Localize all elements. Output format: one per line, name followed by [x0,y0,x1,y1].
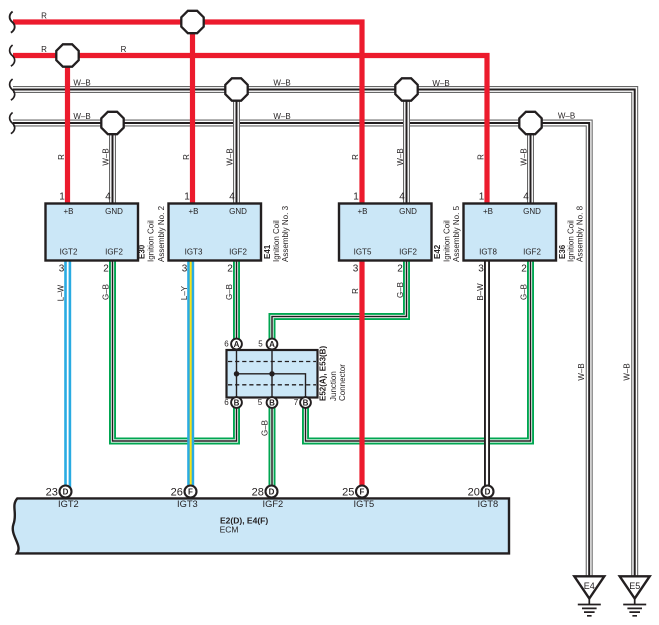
wire R bus row2: left edge right then down to coil4 +B [13,56,487,205]
svg-text:1: 1 [353,192,359,203]
wire G-B: junction B7 down, right, up to coil4 IGF2 [306,260,531,441]
svg-text:Ignition Coil: Ignition Coil [567,220,576,262]
junction internal wire A6-B6 [236,350,238,398]
svg-text:W–B: W–B [225,148,234,165]
junction dashed partition lower [228,384,316,386]
svg-text:Ignition Coil: Ignition Coil [272,220,281,262]
coil E30 side label [138,205,166,262]
svg-text:2: 2 [103,264,109,275]
svg-text:D: D [63,487,69,496]
coil E36 pin numbers [478,192,529,275]
wire L-W: coil1 IGT2 down to ECM pin 23 [64,260,71,492]
svg-text:A: A [269,340,275,349]
svg-text:R: R [41,11,47,20]
ECM name label [220,515,269,534]
svg-text:GND: GND [399,207,417,216]
svg-text:IGT8: IGT8 [478,499,499,509]
svg-text:4: 4 [399,192,405,203]
svg-text:1: 1 [59,192,65,203]
wire L-Y: coil2 IGT3 down to ECM pin 26 [187,260,194,492]
svg-text:E5: E5 [629,581,640,591]
wire W-B bus row4: left edge to right side, down to ground E4 [13,123,589,577]
break symbol row1 [10,12,15,33]
svg-text:G–B: G–B [225,284,234,300]
ignition coil E42 box (No. 5) [339,204,432,261]
svg-text:G–B: G–B [102,284,111,300]
coil E41 side label [263,205,290,262]
ignition coil E36 box (No. 8) [464,204,557,261]
svg-text:Connector: Connector [338,364,347,401]
svg-text:B–W: B–W [476,283,485,301]
svg-text:+B: +B [357,207,367,216]
wire W-B bus row3: left edge to right side, down to ground E5 [13,90,635,578]
svg-text:IGF2: IGF2 [263,499,284,509]
coil E42 pin numbers [353,192,406,275]
svg-text:IGT2: IGT2 [60,247,78,256]
ECM box with torn left edge [13,498,509,553]
svg-text:IGF2: IGF2 [105,247,123,256]
svg-text:25: 25 [342,487,354,499]
ECM pin 28 D IGF2 [252,486,284,510]
svg-text:F: F [188,487,193,496]
node octagon: row3 junction at x236.5 [225,78,247,100]
svg-text:IGF2: IGF2 [229,247,247,256]
wire R bus row1: left edge right then down to coil3 +B [13,22,362,204]
svg-text:IGF2: IGF2 [399,247,417,256]
wire G-B: coil3 IGF2 down, left, down to junction A5 [272,260,407,341]
svg-text:R: R [182,154,191,160]
ECM pin 26 F IGT3 [171,486,198,510]
wire W-B drop: row4 octagon to coil4 GND [527,123,534,204]
ECM pin 23 D IGT2 [46,486,79,510]
svg-text:E42: E42 [433,244,442,259]
junction dashed partition upper [228,361,316,363]
svg-text:IGT3: IGT3 [177,499,198,509]
ground E4 [574,576,604,616]
wire R drop: row2 octagon to coil1 +B [65,56,70,205]
svg-text:L–Y: L–Y [180,285,189,300]
svg-text:Assembly No. 2: Assembly No. 2 [157,205,166,262]
svg-text:W–B: W–B [558,111,575,120]
coil E41 pin numbers [182,192,236,275]
svg-text:IGT5: IGT5 [354,247,372,256]
wire R drop: row1 octagon to coil2 +B [190,22,195,204]
svg-text:1: 1 [184,192,190,203]
svg-text:W–B: W–B [101,148,110,165]
svg-text:W–B: W–B [577,363,586,380]
junction pin B7 [294,397,311,408]
junction internal bus to B7 [237,374,306,398]
svg-text:23: 23 [46,487,58,499]
svg-text:1: 1 [479,192,485,203]
svg-text:R: R [41,45,47,54]
svg-text:20: 20 [468,487,480,499]
wire R: coil3 IGT5 down to ECM pin 25 [359,260,364,492]
svg-text:3: 3 [353,264,359,275]
svg-text:W–B: W–B [623,363,632,380]
svg-text:5: 5 [258,398,263,407]
node octagon: row1 junction at x192.5 [181,11,203,33]
svg-text:4: 4 [105,192,111,203]
svg-text:+B: +B [483,207,493,216]
svg-text:3: 3 [182,264,188,275]
break symbol row3 [10,79,15,100]
svg-text:B: B [303,398,309,407]
coil E42 side label [433,205,461,262]
ignition coil E30 box (No. 2) [46,204,139,261]
wire G-B: junction B5 down to ECM IGF2 pin 28 [269,404,276,492]
svg-text:26: 26 [171,487,183,499]
svg-text:28: 28 [252,487,264,499]
node octagon: row4 junction at x112.5 [101,112,123,134]
svg-text:GND: GND [105,207,123,216]
svg-text:B: B [234,398,240,407]
svg-text:4: 4 [229,192,235,203]
ignition coil E41 box (No. 3) [169,204,262,261]
svg-text:E30: E30 [138,244,147,259]
svg-text:GND: GND [229,207,247,216]
svg-text:R: R [351,154,360,160]
junction pin A5 [258,339,277,350]
wire G-B: coil1 IGF2 down, right, up to junction B6 [113,260,237,441]
svg-text:Assembly No. 8: Assembly No. 8 [575,205,584,262]
svg-text:R: R [121,45,127,54]
svg-text:R: R [57,154,66,160]
junction node dot 1 [234,371,239,376]
svg-text:+B: +B [63,207,73,216]
svg-text:D: D [485,487,491,496]
svg-text:2: 2 [521,264,527,275]
svg-text:W–B: W–B [73,112,90,121]
svg-text:G–B: G–B [519,284,528,300]
svg-text:Assembly No. 3: Assembly No. 3 [281,205,290,262]
svg-text:R: R [351,288,360,294]
svg-text:Junction: Junction [329,371,338,401]
break symbol row2 [10,45,15,66]
svg-text:IGF2: IGF2 [523,247,541,256]
wire B-W: coil4 IGT8 down to ECM pin 20 [484,260,490,492]
svg-text:D: D [269,487,275,496]
ECM pin 20 D IGT8 [468,486,499,510]
junction side label [319,346,347,401]
coil E30 pin numbers [59,192,112,275]
svg-text:W–B: W–B [519,148,528,165]
svg-text:IGT5: IGT5 [354,499,375,509]
svg-text:Ignition Coil: Ignition Coil [147,220,156,262]
svg-text:Ignition Coil: Ignition Coil [443,220,452,262]
svg-text:3: 3 [478,264,484,275]
svg-text:L–W: L–W [56,284,65,301]
svg-text:W–B: W–B [396,148,405,165]
svg-text:G–B: G–B [260,420,269,436]
svg-text:5: 5 [258,339,263,348]
svg-text:W–B: W–B [73,78,90,87]
junction pin A6 [224,339,242,350]
junction node dot 2 [269,371,274,376]
junction pin B5 [258,397,278,408]
ECM pin 25 F IGT5 [342,486,374,510]
junction pin B6 [224,397,242,408]
svg-text:GND: GND [523,207,541,216]
wire W-B drop: row3 octagon to coil2 GND [233,90,240,205]
svg-text:4: 4 [523,192,529,203]
svg-text:ECM: ECM [220,525,239,535]
svg-text:IGT8: IGT8 [479,247,497,256]
wire W-B drop: row3 octagon to coil3 GND [403,90,410,205]
svg-text:A: A [234,340,240,349]
svg-text:R: R [476,154,485,160]
svg-text:B: B [269,398,275,407]
node octagon: row3 junction at x406.5 [395,78,417,100]
svg-text:7: 7 [294,398,299,407]
svg-text:W–B: W–B [273,112,290,121]
svg-text:6: 6 [224,339,229,348]
svg-text:3: 3 [59,264,65,275]
coil E36 side label [558,205,584,262]
svg-text:E52(A), E53(B): E52(A), E53(B) [319,346,328,401]
svg-text:2: 2 [397,264,403,275]
node octagon: row4 junction at x530.5 [519,112,541,134]
junction internal wire A5-B5 [271,350,273,398]
svg-text:F: F [360,487,365,496]
svg-text:+B: +B [188,207,198,216]
break symbol row4 [10,113,15,134]
svg-text:IGT2: IGT2 [58,499,79,509]
ground E5 [620,576,650,616]
node octagon: row2 junction at x67.5 [56,44,78,66]
wire W-B drop: row4 octagon to coil1 GND [109,123,116,204]
svg-text:E4: E4 [584,581,595,591]
svg-text:G–B: G–B [396,282,405,298]
svg-text:6: 6 [224,398,229,407]
svg-text:E41: E41 [263,244,272,259]
svg-text:W–B: W–B [273,78,290,87]
svg-text:2: 2 [227,264,233,275]
svg-text:W–B: W–B [432,79,449,88]
svg-text:Assembly No. 5: Assembly No. 5 [452,205,461,262]
wire G-B: coil2 IGF2 straight down to junction A6 [233,260,240,341]
svg-text:IGT3: IGT3 [185,247,203,256]
junction connector E52(A), E53(B) box [227,350,318,398]
